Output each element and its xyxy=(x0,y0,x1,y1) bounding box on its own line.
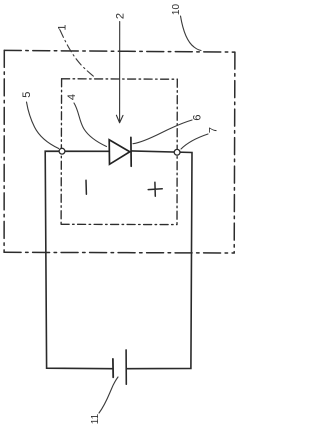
leader line label 10 xyxy=(181,16,202,51)
leader line label 4 xyxy=(74,103,107,147)
arrow pointer for label 2 xyxy=(116,22,123,123)
inner box left side xyxy=(60,79,63,225)
leader line label 6 xyxy=(133,120,192,144)
diode D anode triangle xyxy=(109,140,130,165)
inner box bottom side xyxy=(61,223,177,225)
svg-text:5: 5 xyxy=(21,92,33,98)
svg-text:11: 11 xyxy=(90,413,101,424)
outer box left side xyxy=(3,50,5,252)
wire right: cathode to battery right plate xyxy=(126,151,192,369)
svg-text:7: 7 xyxy=(208,127,220,133)
svg-text:2: 2 xyxy=(115,13,127,19)
outer dash-dot enclosure box (net 10) : top side xyxy=(4,50,235,52)
leader line label 11 xyxy=(99,377,118,413)
svg-text:4: 4 xyxy=(66,94,78,100)
svg-text:10: 10 xyxy=(171,4,182,16)
inner dash-dot module box (net 1) : top side xyxy=(62,78,178,80)
battery B11 short plate xyxy=(112,359,114,377)
inner box right side xyxy=(176,79,178,224)
svg-text:6: 6 xyxy=(192,114,204,120)
wire left: anode to battery left plate xyxy=(45,151,112,369)
node terminal 7 (right junction circle) xyxy=(174,149,180,155)
node terminal 5 (left junction circle) xyxy=(59,148,65,154)
leader line label 5 xyxy=(27,102,59,149)
plus polarity mark (rotated) xyxy=(148,182,162,196)
battery B11 long plate xyxy=(125,350,127,384)
minus polarity mark (rotated) xyxy=(85,180,87,194)
outer box bottom side xyxy=(4,251,234,254)
diode D cathode bar xyxy=(130,137,132,166)
svg-text:1: 1 xyxy=(57,24,69,30)
leader line label 1 xyxy=(60,30,96,78)
leader line label 7 xyxy=(181,134,208,149)
outer box right side xyxy=(233,52,236,253)
